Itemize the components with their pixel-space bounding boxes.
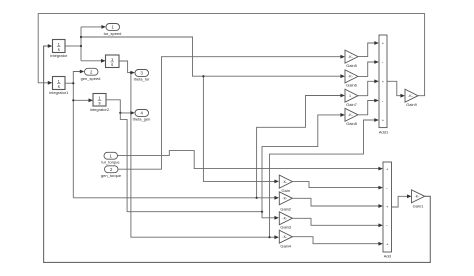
- wire: tur_speed long branch to Gain6: [80, 36, 345, 78]
- svg-text:Gain7: Gain7: [346, 102, 357, 107]
- wire: Gain3 out to Add port4: [292, 218, 383, 227]
- gain Gain6: [345, 70, 358, 88]
- svg-text:Gain6: Gain6: [346, 83, 357, 88]
- svg-text:integrator1: integrator1: [49, 90, 69, 95]
- wire: theta_gen down branch to Gain3 with rise to Gain8: [120, 113, 345, 220]
- wire: tur_speed down branch to Gain block (T1): [202, 75, 279, 183]
- svg-text:-K-: -K-: [282, 235, 288, 239]
- gain Gain (T1): [279, 175, 292, 193]
- svg-text:Gain9: Gain9: [406, 102, 417, 107]
- svg-text:s: s: [111, 62, 113, 67]
- svg-text:-K-: -K-: [408, 94, 414, 98]
- outport 4 theta_gen: [133, 110, 151, 122]
- outport 2 gen_speed: [81, 68, 101, 81]
- gain Gain4 (T4): [279, 230, 292, 248]
- wire: feedback loop top (Gain9 out to integrator1 in): [38, 14, 424, 96]
- gain Gain1: [412, 190, 425, 209]
- wire: Add out to Gain1: [392, 194, 412, 207]
- svg-text:1: 1: [349, 94, 351, 98]
- wire: theta_gen net from integrator2 out to outport4: [106, 100, 135, 115]
- svg-text:Gain4: Gain4: [280, 243, 291, 248]
- svg-text:Gain3: Gain3: [280, 224, 291, 229]
- inport 2 gen_torque: [101, 166, 122, 178]
- wire: Gain2 out to Add port3: [292, 198, 383, 208]
- wire: gen_speed net from integrator1 out: [65, 70, 84, 198]
- svg-text:-K-: -K-: [282, 217, 288, 221]
- svg-text:Add: Add: [384, 254, 391, 259]
- svg-text:theta_gen: theta_gen: [133, 117, 151, 122]
- integrator2 U4: [90, 94, 110, 112]
- wire: Gain5 out to Add1 port1: [358, 41, 379, 57]
- gain Gain5: [345, 50, 358, 68]
- integrator1 U2: [49, 77, 69, 96]
- gain Gain2 (T2): [279, 192, 292, 212]
- svg-text:theta_tur: theta_tur: [134, 77, 150, 82]
- wire: gen_torque rise to Gain5: [118, 55, 345, 169]
- wire: branch into integrator U3: [81, 59, 106, 63]
- svg-text:gen_speed: gen_speed: [81, 76, 101, 81]
- svg-text:Add1: Add1: [379, 130, 389, 135]
- wire: gen_speed branch into integrator2: [72, 98, 93, 102]
- wire: Gain8 out to Add1 port4: [358, 99, 379, 115]
- wire: Gain7 out to Add1 port3: [358, 79, 379, 95]
- svg-text:integrator2: integrator2: [90, 107, 110, 112]
- svg-text:integrator: integrator: [50, 53, 68, 58]
- svg-text:Gain8: Gain8: [346, 121, 357, 126]
- wire: theta_tur net from U3 out to outport3 and down: [119, 61, 279, 239]
- svg-text:Gain1: Gain1: [413, 203, 424, 208]
- svg-text:s: s: [58, 47, 60, 52]
- wire: Add1 out to Gain9: [387, 81, 405, 97]
- sum block Add: [383, 162, 392, 259]
- wire: gen_speed line to Gain2 with branch up to Gain7: [73, 94, 345, 200]
- wire: tur_speed net from integrator out with branches: [65, 25, 106, 61]
- integrator U1: [50, 40, 68, 59]
- sum block Add1: [379, 35, 389, 135]
- wire: Gain6 out to Add1 port2: [358, 60, 379, 76]
- integrator block U3 (unlabeled 1/s): [106, 55, 120, 68]
- wire: theta_tur rise to Add1 port5: [268, 118, 378, 238]
- gain Gain9: [405, 89, 418, 107]
- outport 1 tur_speed: [104, 24, 122, 36]
- svg-text:-K-: -K-: [415, 195, 421, 199]
- gain Gain3 (T3): [279, 212, 292, 230]
- svg-text:Gain2: Gain2: [280, 206, 291, 211]
- wire: tur_torque staircase to Add port1: [118, 151, 383, 171]
- wire: feedback loop bottom (Gain1 out to integrator in): [44, 44, 431, 262]
- svg-text:Gain5: Gain5: [346, 63, 357, 68]
- svg-text:s: s: [98, 101, 100, 106]
- gain Gain8: [345, 108, 358, 126]
- outport 3 theta_tur: [134, 70, 150, 82]
- svg-text:-K-: -K-: [282, 180, 288, 184]
- svg-text:-K-: -K-: [348, 55, 354, 59]
- svg-text:tur_speed: tur_speed: [104, 31, 122, 36]
- gain Gain7: [345, 89, 358, 107]
- svg-text:-K-: -K-: [348, 113, 354, 117]
- wire: Gain out to Add port2: [292, 182, 383, 190]
- inport 1 tur_torque: [101, 152, 120, 164]
- svg-text:Gain: Gain: [281, 188, 289, 193]
- svg-text:-K-: -K-: [348, 75, 354, 79]
- svg-text:-K-: -K-: [282, 197, 288, 201]
- svg-text:gen_torque: gen_torque: [101, 173, 122, 178]
- svg-text:tur_torque: tur_torque: [101, 160, 120, 165]
- wire: Gain4 out to Add port5: [292, 237, 383, 246]
- svg-text:s: s: [58, 84, 60, 89]
